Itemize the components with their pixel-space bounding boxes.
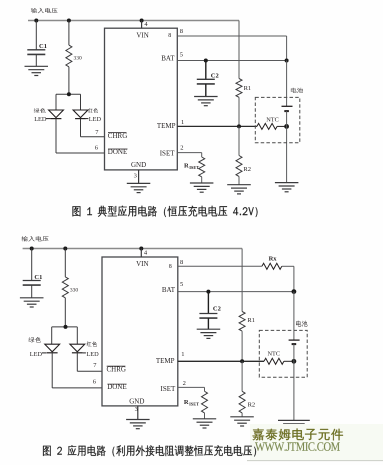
junction R1/TEMP fig1: [237, 124, 241, 128]
label green LED fig2: [29, 337, 47, 358]
svg-text:330: 330: [74, 56, 83, 62]
caption figure 1: [73, 206, 258, 218]
wire green LED anode drop fig1: [55, 94, 57, 110]
wire: LED anode bar fig1: [56, 93, 81, 95]
resistor R2 fig2: [239, 361, 255, 417]
resistor Rx fig2: [262, 256, 282, 270]
svg-text:BAT: BAT: [162, 286, 176, 294]
IC pin labels fig2: [107, 260, 177, 405]
junction C2 fig1: [204, 59, 208, 63]
op IC U1 box fig2: [102, 257, 178, 406]
svg-text:C2: C2: [213, 305, 221, 312]
resistor R1 fig1: [236, 21, 251, 127]
resistor RISET fig2: [184, 391, 208, 419]
node: input voltage label (fig2): [22, 236, 49, 242]
resistor R2 fig1: [236, 126, 251, 184]
svg-text:ISET: ISET: [189, 401, 199, 406]
svg-text:TEMP: TEMP: [156, 357, 175, 365]
ground under battery fig1: [275, 183, 299, 192]
label red LED fig1: [86, 108, 102, 123]
wire pin8 to Rx fig2: [178, 265, 262, 267]
svg-text:ISET: ISET: [161, 385, 177, 393]
svg-text:3: 3: [135, 406, 138, 413]
svg-text:R2: R2: [248, 401, 256, 408]
junction LED bar fig1: [67, 92, 71, 96]
battery BT1 fig1: [282, 61, 293, 183]
junction R1/TEMP fig2: [240, 359, 244, 363]
svg-text:Rx: Rx: [269, 256, 278, 263]
svg-text:ISET: ISET: [189, 165, 199, 170]
wire: red LED to CHRG pin7 fig1: [80, 119, 82, 137]
ground under C1 fig1: [25, 66, 49, 75]
wire BAT pin5 fig1: [177, 60, 286, 62]
label red LED fig2: [83, 341, 99, 358]
ground under C2 fig2: [197, 329, 221, 338]
wire Rx to battery+ fig2: [282, 265, 294, 267]
wire VIN stub pin4 fig2: [140, 249, 142, 258]
junction NTC/battery fig2: [292, 359, 297, 364]
svg-text:R1: R1: [247, 317, 255, 324]
svg-text:2: 2: [180, 144, 183, 151]
op IC U1 box fig1: [105, 28, 178, 170]
node: input voltage label (fig1): [31, 8, 58, 13]
thermistor NTC fig2: [264, 351, 294, 365]
node B junction R330 fig1: [67, 19, 71, 23]
wire BAT pin5 fig2: [178, 291, 294, 293]
svg-text:8: 8: [180, 28, 183, 35]
resistor 330 fig2: [62, 249, 78, 327]
watermark text WWW.JTMIC.COM: [255, 442, 340, 451]
LED green D1 fig2: [45, 344, 60, 353]
ground under R2 fig2: [230, 417, 254, 426]
wire red LED anode drop fig1: [80, 94, 82, 110]
svg-text:330: 330: [70, 288, 79, 294]
watermark background tint: [250, 424, 383, 460]
capacitor C1 fig1: [27, 21, 47, 67]
svg-text:2: 2: [183, 380, 186, 387]
IC pin labels fig1: [108, 31, 176, 169]
svg-text:R2: R2: [243, 166, 251, 173]
node A junction C1 fig1: [34, 19, 38, 23]
LED green D1 fig1: [49, 110, 64, 119]
watermark text 嘉泰姆电子元件: [253, 429, 344, 441]
svg-text:1: 1: [181, 351, 184, 358]
svg-text:3: 3: [134, 172, 137, 179]
svg-text:C1: C1: [39, 43, 47, 50]
junction C2 fig2: [206, 290, 210, 294]
junction NTC/battery fig1: [284, 124, 289, 129]
watermark box bottom edge: [247, 460, 383, 462]
ground under RISET fig1: [190, 183, 214, 192]
ground under IC fig1: [127, 183, 151, 192]
ground under C2 fig1: [194, 97, 218, 106]
wire ISET pin2 fig2: [178, 386, 205, 388]
resistor RISET fig1: [184, 157, 205, 183]
ground under IC fig2: [126, 420, 150, 429]
junction VIN pin4 fig2: [139, 247, 143, 251]
ground under C1 fig2: [20, 298, 44, 307]
svg-text:8: 8: [180, 259, 183, 266]
wire: top input rail fig1: [28, 20, 239, 22]
thermistor NTC fig1: [257, 117, 287, 130]
svg-text:VIN: VIN: [136, 260, 148, 268]
label battery 电池 fig2: [296, 321, 308, 327]
wire green LED to DONE pin6 fig2: [51, 353, 53, 388]
battery BT1 fig2: [289, 292, 300, 421]
svg-text:GND: GND: [129, 397, 144, 405]
svg-text:5: 5: [180, 52, 183, 59]
svg-text:8: 8: [168, 33, 171, 39]
svg-text:LED: LED: [34, 116, 47, 123]
label battery 电池 fig1: [291, 88, 303, 93]
svg-text:ISET: ISET: [160, 150, 176, 158]
wire red LED to CHRG pin7 fig2: [76, 353, 78, 371]
wire GND pin3 fig1: [138, 170, 140, 184]
ground under R2 fig1: [227, 185, 251, 194]
svg-text:NTC: NTC: [266, 117, 279, 124]
LED red D2 fig1: [73, 110, 88, 119]
resistor R1 fig2: [239, 249, 255, 362]
node VIN junction pin4 fig1: [140, 19, 144, 23]
wire TEMP pin1 fig2: [178, 360, 264, 362]
caption figure 2: [43, 445, 256, 457]
capacitor C2 fig2: [199, 292, 220, 330]
label green LED fig1: [34, 108, 51, 123]
svg-text:BAT: BAT: [161, 55, 175, 63]
LED red D2 fig2: [70, 344, 85, 353]
svg-text:LED: LED: [89, 116, 102, 123]
svg-text:GND: GND: [131, 161, 146, 169]
junction C1 fig2: [30, 247, 34, 251]
wire pin8 to battery+ fig1: [177, 35, 286, 37]
junction battery+ fig1: [285, 59, 289, 63]
svg-text:C2: C2: [211, 73, 219, 80]
capacitor C2 fig1: [197, 61, 219, 97]
svg-text:R1: R1: [244, 85, 252, 92]
junction battery+ fig2: [292, 289, 297, 294]
svg-text:LED: LED: [30, 351, 43, 358]
svg-text:C1: C1: [34, 274, 42, 281]
wire green LED drop fig2: [51, 327, 53, 344]
svg-text:VIN: VIN: [136, 31, 148, 39]
battery box dashed fig1: [255, 97, 299, 142]
ground under RISET fig2: [193, 419, 216, 428]
wire: top input rail fig2: [23, 248, 243, 250]
wire GND pin3 fig2: [137, 406, 139, 420]
junction LED bar fig2: [64, 325, 68, 329]
svg-text:LED: LED: [86, 351, 99, 358]
junction R330 fig2: [63, 247, 67, 251]
svg-text:NTC: NTC: [268, 351, 281, 358]
svg-text:TEMP: TEMP: [157, 122, 176, 130]
wire VIN stub pin4 fig1: [141, 21, 143, 29]
capacitor C1 fig2: [23, 249, 43, 298]
resistor 330 fig1: [66, 21, 82, 95]
svg-text:8: 8: [169, 264, 172, 270]
svg-text:5: 5: [180, 281, 183, 288]
battery box dashed fig2: [259, 330, 307, 377]
wire TEMP pin1 fig1: [177, 125, 257, 127]
ground under battery fig2: [278, 420, 310, 429]
wire LED anode bar fig2: [52, 326, 78, 328]
wire ISET pin2 fig1: [177, 152, 201, 154]
wire: green LED to DONE pin6 fig1: [55, 119, 57, 153]
svg-text:1: 1: [181, 119, 184, 126]
wire red LED drop fig2: [76, 327, 78, 344]
